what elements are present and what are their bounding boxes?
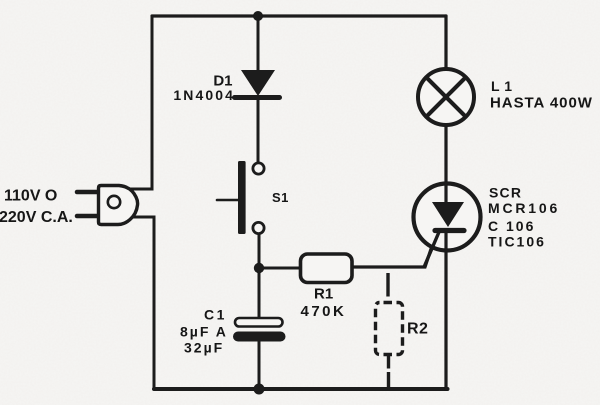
wire node A to R1 [259,267,301,270]
svg-text:C 106: C 106 [488,218,535,234]
node junction top rail [253,11,263,21]
svg-text:MCR106: MCR106 [488,200,560,216]
svg-text:HASTA 400W: HASTA 400W [490,95,593,112]
wire switch to node A [258,234,261,319]
wire SCR cathode to bottom rail [444,232,447,389]
AC plug P1 [77,186,138,225]
svg-text:R1: R1 [314,286,333,303]
wire lamp to SCR [444,124,447,203]
lamp L1 [418,69,474,125]
switch S1 [217,161,264,234]
svg-text:470K: 470K [301,303,347,320]
svg-text:TIC106: TIC106 [488,234,546,250]
wire left vertical lower [131,217,154,389]
capacitor C1 [233,318,286,342]
svg-text:32µF: 32µF [184,340,224,356]
wire right vertical above lamp [444,16,447,70]
svg-text:S1: S1 [272,190,289,205]
svg-text:L 1: L 1 [491,78,512,94]
resistor R1 [301,254,353,283]
diode D1 [235,70,280,98]
resistor R2 (dashed) [376,273,403,388]
wire diode branch from top rail [257,16,260,71]
wire bottom rail [154,387,448,391]
SCR U1 [414,184,481,267]
svg-text:8µF A: 8µF A [180,324,228,340]
svg-text:R2: R2 [407,321,428,338]
wire diode to switch [257,97,260,163]
svg-text:1N4004: 1N4004 [173,87,235,103]
svg-text:110V O: 110V O [4,188,57,205]
wire top rail [152,14,446,17]
svg-text:C1: C1 [204,307,227,323]
node junction bottom rail [254,384,265,395]
wire R1 to gate [352,231,437,267]
svg-text:SCR: SCR [489,185,522,201]
svg-text:220V C.A.: 220V C.A. [0,209,73,226]
wire left vertical upper [128,16,152,189]
wire C1 to bottom rail [258,340,261,389]
node A junction [254,263,264,273]
